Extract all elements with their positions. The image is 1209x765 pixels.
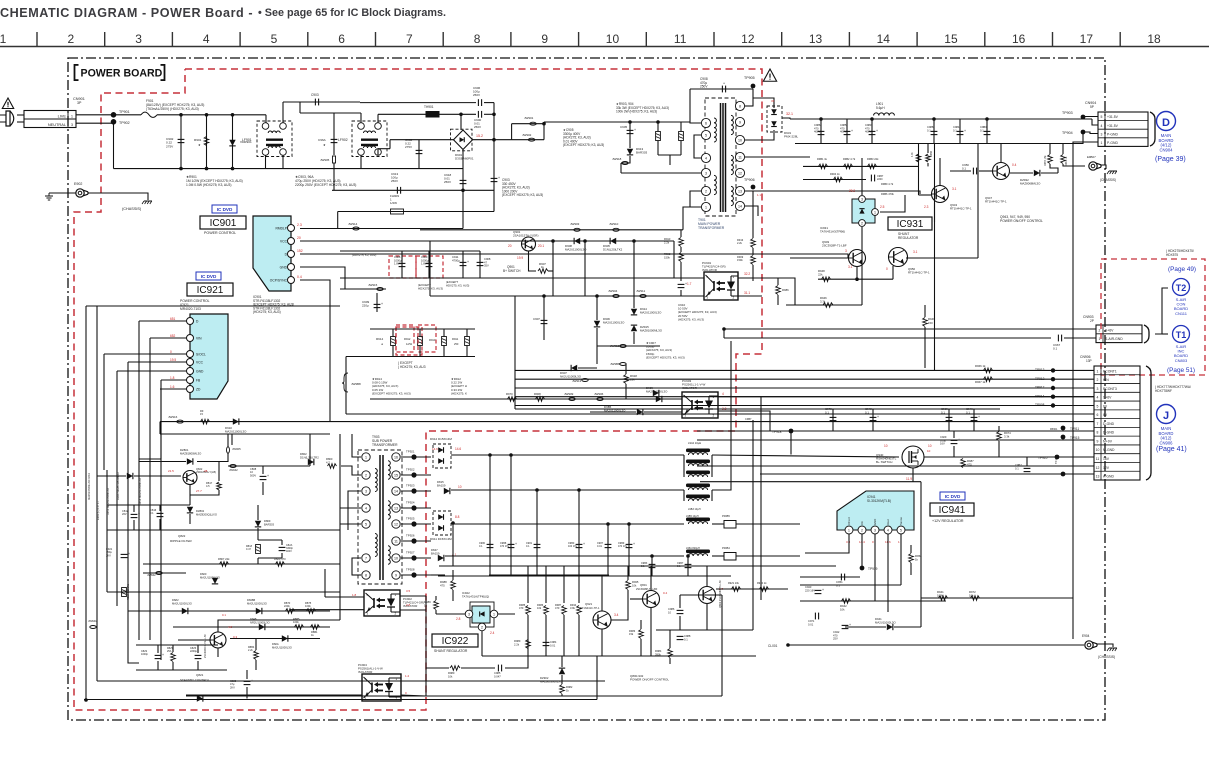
- C929 label: [940, 435, 947, 446]
- capacitor C921: [121, 552, 130, 558]
- svg-text:SCHEMATIC DIAGRAM - POWER B: SCHEMATIC DIAGRAM - POWER Board -: [0, 6, 253, 20]
- svg-text:4.6: 4.6: [228, 625, 233, 629]
- wire C948 col: [872, 409, 874, 431]
- junction s6v: [722, 327, 726, 331]
- resistor R908: [536, 397, 545, 402]
- junction ac6: [231, 167, 235, 171]
- svg-text:D: D: [1162, 117, 1170, 129]
- svg-text:(EXCEPT HDX275; K3, AU3): (EXCEPT HDX275; K3, AU3): [502, 193, 543, 197]
- inductor L962: [686, 484, 710, 491]
- svg-text:1.2: 1.2: [405, 674, 410, 678]
- wire pc903 out1: [718, 396, 1094, 398]
- C903 label: [311, 93, 319, 97]
- bridge diode: [460, 137, 465, 142]
- wire IC921 pin y389: [160, 388, 187, 390]
- svg-text:4: 4: [705, 157, 707, 161]
- wire fb row: [426, 667, 449, 669]
- svg-text:3: 3: [1097, 387, 1099, 391]
- wire mid rail: [515, 408, 1000, 410]
- optocoupler PC902: [364, 590, 400, 616]
- capacitor C960: [426, 263, 433, 266]
- svg-text:4: 4: [365, 507, 367, 511]
- svg-text:IC922: IC922: [442, 636, 469, 647]
- DZ902 label: [540, 676, 563, 683]
- svg-text:0.1: 0.1: [966, 410, 970, 414]
- T901 pin 8: [735, 101, 744, 110]
- wire left col97 bot: [96, 560, 98, 681]
- wire pc902 col: [324, 569, 326, 597]
- jumper JW9B8: [620, 363, 626, 366]
- jumper JW910: [613, 228, 619, 231]
- D82A label: [272, 642, 292, 649]
- snubber cap wire: [690, 88, 753, 90]
- TP925 label: [406, 517, 415, 521]
- svg-text:TP915: TP915: [1070, 436, 1080, 440]
- wire vertical x161: [160, 380, 162, 660]
- transistor Q801: [643, 591, 660, 608]
- D910 label: [225, 426, 247, 434]
- wire q943 c: [939, 158, 941, 186]
- wire left col161: [160, 389, 162, 459]
- wire 431 col: [425, 596, 427, 696]
- T903 pin 3: [362, 487, 370, 495]
- C903b label: [502, 178, 543, 197]
- resistor R920: [760, 587, 769, 592]
- JW918 label: [612, 157, 622, 161]
- svg-text:1: 1: [71, 114, 73, 118]
- red v t901p13: [757, 193, 761, 197]
- svg-text:L9B5 10μH: L9B5 10μH: [686, 515, 699, 518]
- R972 label: [969, 590, 976, 597]
- red voltage 20 IC901: [297, 236, 301, 240]
- resistor R913: [442, 337, 447, 346]
- wire pc904 out1: [401, 680, 426, 682]
- wire t903 sec 9: [401, 574, 431, 576]
- wire c808 dn: [262, 482, 264, 495]
- resistor R953: [868, 164, 877, 169]
- capacitor C918: [460, 180, 467, 183]
- T901 primary winding 2: [714, 175, 716, 194]
- T903 label: [372, 435, 398, 447]
- IC941 pin name Vout: [886, 519, 890, 525]
- svg-text:C903: C903: [311, 93, 319, 97]
- wire row13: [760, 473, 1094, 475]
- wire long bus 681: [186, 680, 605, 682]
- svg-text:POWER ON/OFF CONTROL: POWER ON/OFF CONTROL: [630, 678, 669, 682]
- jumper JW913: [582, 379, 588, 382]
- svg-text:4: 4: [722, 392, 724, 396]
- red v q949b: [848, 265, 853, 269]
- svg-text:13: 13: [1096, 475, 1100, 479]
- connector CN904: [1098, 112, 1148, 146]
- svg-text:(HDX275; K3, AU3): (HDX275; K3, AU3): [253, 310, 281, 314]
- svg-text:RT1N441C-TP-1: RT1N441C-TP-1: [908, 271, 930, 275]
- svg-text:400V: 400V: [840, 130, 846, 134]
- wire c997 dn: [1026, 473, 1028, 475]
- svg-text:13: 13: [809, 32, 823, 46]
- wire c822 up: [157, 645, 159, 653]
- svg-text:C96A: C96A: [318, 138, 327, 142]
- CN903 label: [1083, 315, 1094, 319]
- wire ic941 p4: [887, 534, 889, 612]
- junction rail2: [870, 117, 874, 121]
- T903 pin 14: [392, 487, 400, 495]
- svg-text:4.7k: 4.7k: [911, 152, 914, 157]
- resistor R934: [577, 606, 582, 615]
- svg-text:1/2W: 1/2W: [406, 342, 413, 346]
- R942 label: [840, 604, 847, 611]
- page 49 text: [1168, 266, 1196, 273]
- red v q901a: [508, 244, 512, 248]
- wire 9v rail: [697, 430, 1094, 432]
- capacitor C985s: [498, 665, 501, 672]
- T901 pin 13: [735, 186, 744, 195]
- transistor Q949: [849, 250, 866, 267]
- wire q940 feed: [712, 455, 899, 457]
- wire live bus: [157, 114, 266, 116]
- IC921 pin GND: [187, 368, 204, 375]
- svg-text:0.1: 0.1: [222, 613, 226, 617]
- wire row 414: [346, 413, 1094, 415]
- jumper JW905b: [227, 447, 230, 453]
- svg-text:Q822: Q822: [178, 534, 186, 538]
- svg-text:R901: R901: [194, 138, 202, 142]
- svg-text:250V: 250V: [391, 179, 398, 183]
- rectifier D911 dashed box: [433, 511, 451, 535]
- svg-text:D3SBA60P01: D3SBA60P01: [455, 157, 474, 161]
- C825 label: [230, 679, 237, 689]
- inductor L901: [874, 113, 895, 116]
- JW914 label: [348, 222, 358, 226]
- wire bus 368: [370, 398, 490, 400]
- red v q947: [1012, 163, 1017, 167]
- red box around C906 C960: [389, 256, 443, 278]
- svg-text:CN904: CN904: [1159, 147, 1173, 152]
- except paren text: [398, 361, 426, 369]
- POWER BOARD label: [75, 64, 165, 81]
- wire c909 col: [376, 293, 378, 312]
- resistor R912: [418, 337, 423, 346]
- wire col 634: [633, 241, 635, 296]
- TP912 label: [1035, 377, 1045, 381]
- inductor L944 coil: [688, 453, 707, 455]
- wire bus 420b: [159, 422, 161, 434]
- wire rail 14v: [451, 454, 684, 456]
- resistor R921: [732, 587, 741, 592]
- test point TP903: [1081, 115, 1086, 120]
- svg-text:2.3: 2.3: [297, 223, 302, 227]
- C988b label: [684, 634, 691, 641]
- svg-text:10k: 10k: [448, 674, 453, 678]
- T901 secondary winding 2: [731, 155, 733, 174]
- resistor R967: [984, 377, 993, 382]
- svg-text:RT1N441C-TP-1: RT1N441C-TP-1: [580, 606, 600, 610]
- wire pin10 out: [745, 130, 774, 140]
- svg-text:0.1: 0.1: [865, 410, 869, 414]
- svg-text:JW904: JW904: [608, 289, 618, 293]
- junction ac3: [231, 113, 235, 117]
- resistor R946: [823, 303, 833, 308]
- svg-text:IC931: IC931: [897, 219, 924, 230]
- svg-text:B+ SWITCH: B+ SWITCH: [876, 460, 892, 464]
- wire pin8 up: [745, 105, 753, 107]
- wire hv bus b: [543, 122, 545, 124]
- IC901 pin GND: [280, 264, 295, 271]
- page 41 text: [1156, 446, 1187, 453]
- red v q821b: [233, 635, 238, 639]
- wire col 681: [680, 230, 682, 237]
- wire rbox bot 444: [443, 346, 445, 357]
- wire c822 dn: [157, 661, 159, 670]
- JW905 label: [232, 447, 241, 451]
- wire r829 dn: [172, 662, 174, 670]
- wire dz801 out: [197, 453, 228, 462]
- capacitor C910: [678, 282, 687, 288]
- C943 label: [805, 585, 815, 592]
- svg-text:R911: R911: [452, 337, 459, 341]
- wire left col107 bot: [106, 470, 108, 592]
- T901 secondary winding: [731, 115, 733, 134]
- svg-text:B+ SWITCH: B+ SWITCH: [503, 269, 521, 273]
- wire d906 down: [596, 328, 598, 364]
- svg-text:13: 13: [738, 190, 742, 194]
- svg-text:18: 18: [1147, 32, 1161, 46]
- IC901 function: [204, 231, 236, 235]
- C951 label: [836, 580, 843, 587]
- svg-text:TP926: TP926: [406, 534, 415, 538]
- svg-text:JW9B8: JW9B8: [610, 362, 620, 366]
- wire c950 row2: [979, 170, 992, 172]
- LF902 label: [338, 138, 348, 142]
- jumper JW841b: [90, 626, 96, 629]
- wire q950 c row: [906, 257, 978, 259]
- IC931 pin 1: [872, 209, 879, 216]
- svg-text:100 16V: 100 16V: [568, 545, 578, 548]
- R908 label: [534, 392, 541, 396]
- junction CL001: [786, 643, 790, 647]
- C984 label: [953, 125, 960, 132]
- D3K4 vertical text: [116, 472, 120, 500]
- capacitor C908b: [477, 262, 484, 265]
- test point TP925: [411, 521, 416, 526]
- red v pc903b: [722, 407, 727, 411]
- wire rail 4v: [445, 555, 684, 557]
- svg-text:MAZ8068ML3O: MAZ8068ML3O: [1020, 182, 1041, 186]
- svg-text:JW911: JW911: [636, 289, 645, 293]
- svg-text:BAR303: BAR303: [264, 522, 275, 526]
- C911 label: [452, 255, 460, 262]
- R953 label: [867, 157, 879, 161]
- wire C986 drop: [820, 119, 822, 144]
- svg-text:152: 152: [297, 249, 303, 253]
- svg-text:100k: 100k: [293, 620, 299, 624]
- IC941 pin 3: [871, 526, 879, 534]
- svg-text:VIN: VIN: [196, 337, 202, 341]
- svg-text:0.1: 0.1: [684, 637, 688, 641]
- TP921 label: [406, 450, 415, 454]
- svg-text:Vin: Vin: [860, 521, 864, 525]
- resistor R970: [508, 397, 517, 402]
- svg-text:16: 16: [1012, 32, 1026, 46]
- test point TP918: [789, 429, 794, 434]
- svg-text:2.5: 2.5: [880, 205, 885, 209]
- svg-text:2SC3928P-T1-LBF: 2SC3928P-T1-LBF: [822, 244, 847, 248]
- svg-text:GND: GND: [196, 370, 204, 374]
- T903 sec winding2: [388, 501, 390, 519]
- wire c986 dn: [679, 616, 681, 630]
- wire pin14 out: [745, 206, 758, 216]
- wire R985 col: [527, 566, 529, 603]
- C918 label: [444, 173, 452, 184]
- D912 label: [430, 437, 452, 441]
- R907v label: [541, 265, 544, 269]
- svg-text:0: 0: [170, 350, 172, 354]
- wire sairgnd: [724, 337, 1051, 339]
- wire s6v col: [723, 329, 725, 338]
- R881 label: [311, 630, 318, 637]
- AC plug symbol: [0, 111, 14, 126]
- R901 label: [194, 138, 202, 142]
- svg-text:7: 7: [1097, 422, 1099, 426]
- junction sec 608: [606, 522, 610, 526]
- C905 label: [620, 125, 628, 129]
- TP902 label: [119, 121, 130, 125]
- svg-text:8.8: 8.8: [455, 515, 460, 519]
- C908b label: [484, 257, 491, 268]
- wire stby bottom long: [84, 699, 597, 701]
- svg-text:10: 10: [668, 610, 671, 614]
- wire r903 up: [657, 122, 659, 131]
- wire ic922 bottom: [481, 631, 483, 656]
- svg-text:10: 10: [394, 557, 398, 561]
- svg-text:NK2U11000L3O: NK2U11000L3O: [560, 375, 582, 379]
- wire q801 c: [650, 566, 652, 590]
- bottom AC rail: [114, 168, 464, 170]
- IC931 cyan body: [852, 199, 875, 223]
- svg-text:5: 5: [1101, 115, 1103, 119]
- svg-text:TP901: TP901: [119, 110, 130, 114]
- C9B9 label: [618, 542, 628, 548]
- R970 label: [506, 392, 513, 396]
- capacitor C929: [951, 438, 960, 444]
- svg-text:2SC3928P-T1-LBF: 2SC3928P-T1-LBF: [636, 588, 658, 591]
- wire jw905 up: [227, 434, 229, 447]
- wire d914 col: [633, 296, 635, 308]
- wire mid rail ic922: [489, 574, 609, 576]
- wire row12: [697, 465, 1094, 467]
- svg-text:+: +: [515, 542, 517, 546]
- wire fb row3: [505, 656, 528, 668]
- svg-text:250: 250: [454, 342, 459, 346]
- svg-text:1.6: 1.6: [170, 385, 175, 389]
- resistor R942: [842, 599, 851, 604]
- wire pc902 in1: [325, 596, 364, 598]
- red voltage IC941 1: [898, 540, 900, 544]
- wire d931 top: [753, 98, 774, 108]
- wire rmdlp: [300, 228, 463, 230]
- resistor R987: [562, 606, 567, 615]
- svg-text:MA2U11000L3O: MA2U11000L3O: [172, 601, 192, 605]
- connector T1 circle: [1173, 326, 1190, 343]
- wire pgnd3: [1050, 132, 1098, 144]
- svg-text:14: 14: [394, 490, 398, 494]
- junction rail190: [461, 189, 465, 193]
- wire cluster rail2: [340, 277, 520, 279]
- wire vertical x117: [116, 371, 118, 560]
- wire pin2 tie: [690, 191, 701, 207]
- wire r955 dn: [1050, 164, 1058, 173]
- junction 241b: [583, 239, 587, 243]
- junction sec 652: [650, 554, 654, 558]
- wire r988 col: [452, 570, 454, 580]
- svg-text:HDX275; K3, AU3): HDX275; K3, AU3): [446, 283, 469, 287]
- diode D909: [653, 390, 659, 396]
- resistor R951: [819, 164, 828, 169]
- resistor R818: [256, 545, 261, 554]
- C822 label: [141, 650, 149, 656]
- svg-text:HDX275; K3, AU3): HDX275; K3, AU3): [418, 287, 443, 291]
- L901 label: [876, 102, 885, 110]
- svg-text:A-GND: A-GND: [1103, 475, 1114, 479]
- wire pc902 in2: [290, 609, 364, 611]
- svg-text:0.1: 0.1: [526, 545, 530, 548]
- wire b row A: [340, 277, 704, 279]
- red v q901c: [517, 256, 523, 260]
- junction dc: [492, 138, 496, 142]
- svg-text:2SA1015TA-Y(GR): 2SA1015TA-Y(GR): [513, 234, 538, 238]
- wire pin5 stub: [694, 135, 701, 158]
- resistor R903: [656, 132, 661, 141]
- diode D823: [197, 695, 203, 701]
- svg-text:0.1: 0.1: [980, 128, 984, 132]
- wire q802 base from: [698, 594, 722, 596]
- svg-text:9: 9: [739, 121, 741, 125]
- wire q943 e dn: [934, 203, 936, 222]
- wire pc904 in1: [97, 680, 362, 682]
- wire jw915: [340, 288, 386, 290]
- IC941 pin name Sense: [899, 517, 903, 525]
- Q950 label: [908, 267, 930, 275]
- svg-text:100k 3W (HDX275; K3, AU3): 100k 3W (HDX275; K3, AU3): [616, 110, 657, 114]
- svg-text:D3K4 MA2B1DB3ML3O: D3K4 MA2B1DB3ML3O: [116, 472, 120, 500]
- JW916 label: [168, 415, 178, 419]
- C82A label: [286, 544, 294, 553]
- svg-text:JW916: JW916: [168, 415, 178, 419]
- inductor L95A coil: [688, 554, 707, 556]
- wire cn902 row2: [515, 378, 1094, 380]
- capacitor C903b: [491, 176, 500, 182]
- wire dz801 row: [139, 461, 186, 463]
- C96A star: [323, 143, 326, 147]
- wire R934 dn: [578, 615, 580, 656]
- svg-text:MA2U11000L3O: MA2U11000L3O: [200, 575, 220, 579]
- svg-text:CN906: CN906: [1159, 440, 1173, 445]
- wire d804 row: [97, 475, 126, 477]
- wire rbox top 444: [443, 329, 445, 337]
- JW9B8 label: [610, 362, 620, 366]
- diode D905b: [610, 238, 616, 244]
- wire sec col 652: [651, 556, 653, 576]
- capacitor C969 row: [946, 417, 953, 420]
- test point TP927: [411, 555, 416, 560]
- stage2 mid wire: [300, 112, 334, 114]
- transistor Q940 B+ switch: [902, 446, 924, 468]
- svg-text:E902: E902: [74, 182, 82, 186]
- wire pin3 line: [621, 172, 701, 174]
- LF902 winding bottom: [364, 146, 376, 148]
- R935 label: [632, 580, 639, 587]
- wire r903 dn: [657, 141, 659, 155]
